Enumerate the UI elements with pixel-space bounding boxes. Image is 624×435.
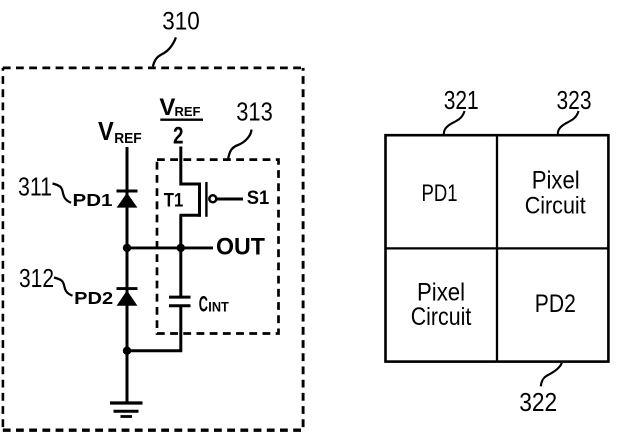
junction node T1-OUT	[177, 244, 185, 252]
svg-text:2: 2	[173, 123, 184, 150]
svg-text:T1: T1	[164, 190, 184, 211]
leader 310	[153, 37, 176, 66]
label VREF	[98, 118, 142, 147]
transistor T1	[180, 182, 217, 217]
capacitor CINT	[169, 297, 191, 306]
svg-text:PD2: PD2	[74, 288, 113, 308]
svg-text:Circuit: Circuit	[525, 192, 586, 219]
svg-text:S1: S1	[247, 187, 270, 209]
svg-text:322: 322	[519, 389, 557, 417]
svg-text:OUT: OUT	[216, 234, 265, 261]
svg-text:REF: REF	[175, 105, 201, 119]
wire transistor to capacitor	[179, 215, 182, 296]
leader 312	[54, 278, 73, 296]
svg-text:313: 313	[236, 99, 273, 127]
wire capacitor to bottom	[127, 306, 181, 351]
svg-text:Pixel: Pixel	[532, 168, 580, 195]
leader 313	[228, 130, 251, 159]
svg-text:V: V	[159, 94, 175, 121]
svg-text:Circuit: Circuit	[411, 303, 472, 331]
label CINT	[199, 291, 229, 316]
label VREF/2 fraction	[159, 94, 203, 150]
ground	[110, 403, 143, 417]
junction node bottom	[123, 347, 131, 355]
svg-text:INT: INT	[208, 299, 229, 315]
leader 311	[53, 184, 72, 203]
pixel array box	[386, 135, 609, 361]
wire VREF/2 to transistor	[179, 147, 182, 186]
svg-text:PD1: PD1	[422, 180, 458, 207]
photodiode PD1	[117, 191, 138, 208]
leader 323	[558, 111, 579, 134]
dashed box 310	[3, 68, 303, 430]
photodiode PD2	[117, 289, 138, 306]
leader 322	[541, 363, 562, 387]
wire OUT horizontal	[127, 246, 213, 249]
leader 321	[444, 111, 465, 134]
pixel array horizontal divider	[386, 247, 609, 249]
svg-text:V: V	[98, 118, 114, 146]
svg-text:321: 321	[444, 87, 479, 115]
cell Pixel Circuit bottom-left	[411, 280, 472, 331]
svg-text:311: 311	[18, 174, 52, 202]
svg-text:PD1: PD1	[73, 190, 113, 210]
junction node left-OUT	[123, 244, 131, 252]
svg-text:312: 312	[19, 265, 54, 293]
svg-text:PD2: PD2	[535, 290, 576, 318]
svg-text:310: 310	[162, 7, 200, 35]
svg-text:REF: REF	[114, 130, 142, 147]
wire left rail	[126, 147, 129, 402]
svg-text:323: 323	[557, 87, 592, 115]
wire to S1	[217, 198, 243, 201]
cell Pixel Circuit top-right	[525, 168, 586, 220]
svg-text:C: C	[199, 291, 208, 316]
dashed box 313	[157, 160, 279, 334]
pixel array vertical divider	[496, 135, 498, 361]
